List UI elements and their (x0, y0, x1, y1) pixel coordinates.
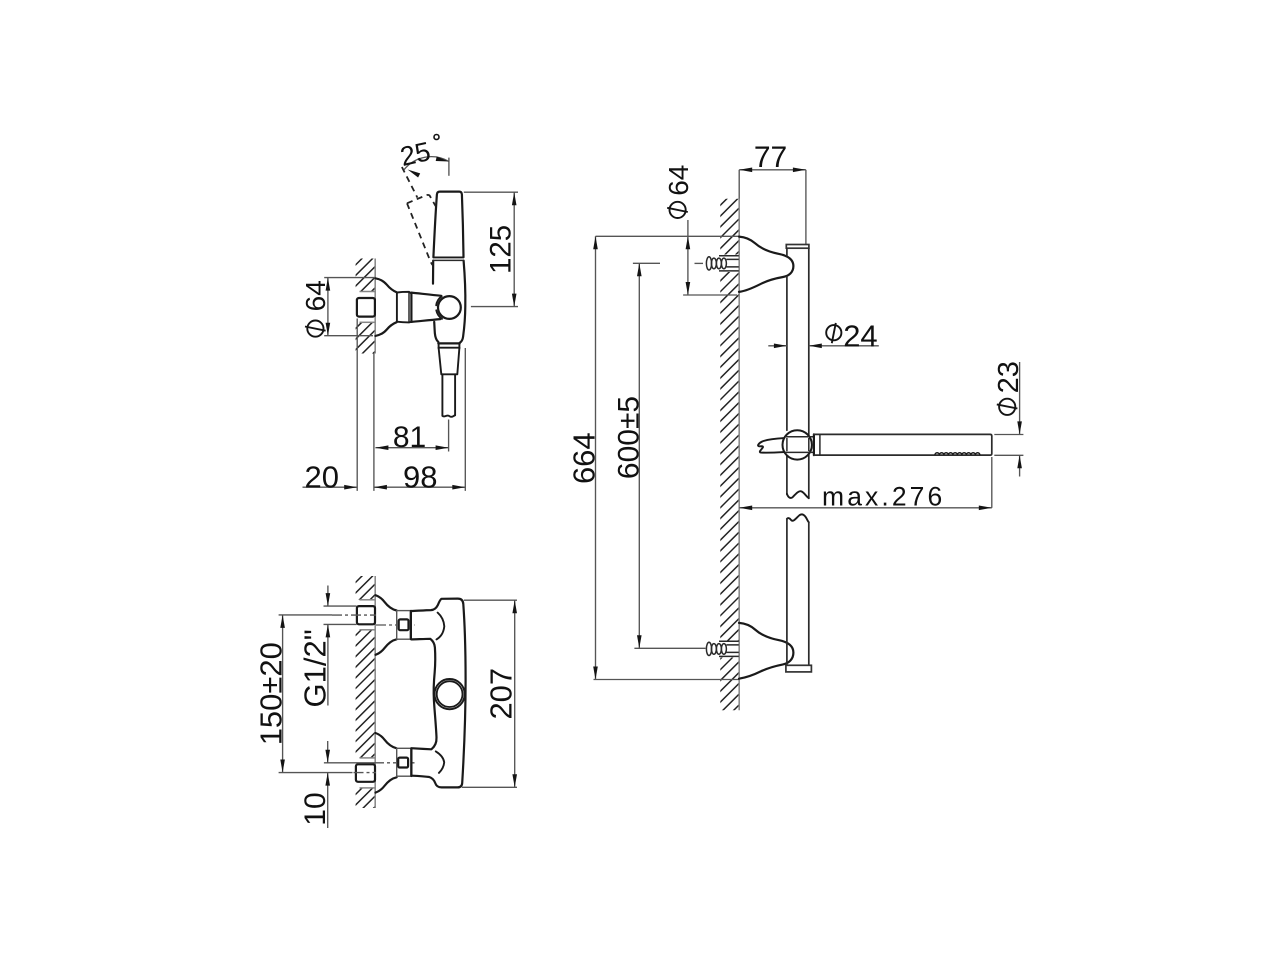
wall face line (right view) (738, 199, 740, 711)
connector box top (397, 611, 411, 640)
mixer body outline (front view) (411, 599, 465, 788)
dimension 150+-20 (282, 615, 284, 773)
dimension 207 (464, 599, 517, 601)
dimension max.276 (739, 507, 992, 509)
holder chords / wand neck (785, 436, 814, 438)
connector box bottom (397, 748, 411, 776)
outlet tube with break end (442, 374, 455, 416)
rail break wave (upper) (787, 491, 809, 498)
rail tube upper piece (786, 248, 788, 494)
bottom wall screw (706, 642, 726, 655)
aerator taper (439, 348, 460, 375)
handset holder knob (783, 430, 812, 459)
dimension phi23 (994, 434, 1023, 436)
svg-text:664: 664 (567, 432, 602, 484)
svg-text:77: 77 (754, 141, 787, 174)
svg-text:64: 64 (300, 280, 331, 311)
dimension 664 (595, 236, 597, 679)
knob rings (front view) (435, 679, 465, 709)
body bottom edge (438, 342, 459, 344)
dimension phi64 (right view) (687, 220, 689, 295)
25 degree arc with arrows (404, 157, 449, 170)
wall inlet square (side view) (357, 298, 375, 317)
rail tube lower piece (787, 519, 809, 665)
phi symbol (305, 321, 326, 337)
wall hole edges (side view) (360, 291, 376, 293)
nozzle bumps (935, 453, 980, 455)
escutcheon trumpet bottom (front view) (376, 733, 397, 748)
rail break wave (lower) (787, 514, 809, 522)
dimension 600+-5 (633, 262, 660, 264)
mixer body (side view) (432, 261, 434, 284)
dimension 98 (374, 486, 465, 488)
vertical reference tick for angle (448, 158, 450, 176)
escutcheon trumpet (side view) (375, 278, 396, 292)
escutcheon trumpet top (front view) (376, 595, 397, 610)
dimension 20 (303, 486, 358, 488)
svg-text:24: 24 (843, 319, 877, 354)
outlet ring below body (439, 343, 460, 347)
wall (side view) with hatching (262, 254, 484, 359)
svg-text:207: 207 (483, 668, 518, 720)
dimension 81 (448, 420, 450, 452)
wall face line (front view) (374, 576, 376, 808)
escutcheon neck (side view) (396, 293, 398, 322)
svg-text:25: 25 (397, 136, 433, 172)
rail top end cap (786, 245, 809, 249)
holder arm cone (side view) (411, 293, 441, 296)
svg-text:150±20: 150±20 (253, 642, 288, 745)
hand shower wand (813, 434, 815, 455)
wall hole edges (front view) (360, 599, 376, 601)
svg-text:125: 125 (485, 225, 518, 274)
svg-text:64: 64 (663, 165, 694, 196)
svg-text:20: 20 (305, 459, 339, 494)
centre line top inlet (279, 614, 332, 616)
dimension G1/2" (324, 605, 357, 607)
svg-text:max.276: max.276 (822, 481, 945, 511)
dimension 125 (464, 191, 518, 193)
svg-text:G1/2": G1/2" (297, 629, 332, 707)
body creases (437, 613, 445, 640)
svg-text:10: 10 (299, 792, 332, 825)
top wall screw (695, 262, 704, 264)
holder grip lever with break (758, 438, 784, 453)
handset (solid, vertical) (433, 192, 463, 258)
wall face line (side view) (374, 259, 376, 354)
handset / body joint lines (433, 256, 463, 258)
wall inlet squares (front view) (357, 606, 375, 624)
centre line top connection (eccentric) (376, 624, 415, 626)
diverter knob circle (side view) (438, 296, 461, 319)
holder clamp arcs (436, 296, 442, 305)
wall (front view) with hatching (125, 571, 621, 813)
top rail bracket (trumpet) (739, 237, 793, 292)
rail bottom cap (786, 665, 812, 672)
dimension 10 (327, 741, 329, 763)
svg-text:600±5: 600±5 (612, 396, 645, 479)
extension lines to bottom dims (373, 354, 375, 491)
dimension 77 (739, 169, 806, 171)
svg-text:23: 23 (993, 361, 1025, 393)
centre line bottom inlet (279, 772, 353, 774)
svg-text:98: 98 (403, 459, 437, 494)
wall (right view) with hatching (210, 194, 1261, 716)
shared extension line 664/phi64 top (596, 235, 740, 237)
dashed tilted handset (25 deg) (402, 167, 418, 198)
bottom rail bracket (trumpet) (739, 623, 793, 679)
centre line bottom connection (324, 762, 374, 764)
dimension phi24 (768, 345, 787, 347)
dimension phi64 (side view) (324, 277, 375, 279)
svg-text:81: 81 (393, 421, 426, 454)
